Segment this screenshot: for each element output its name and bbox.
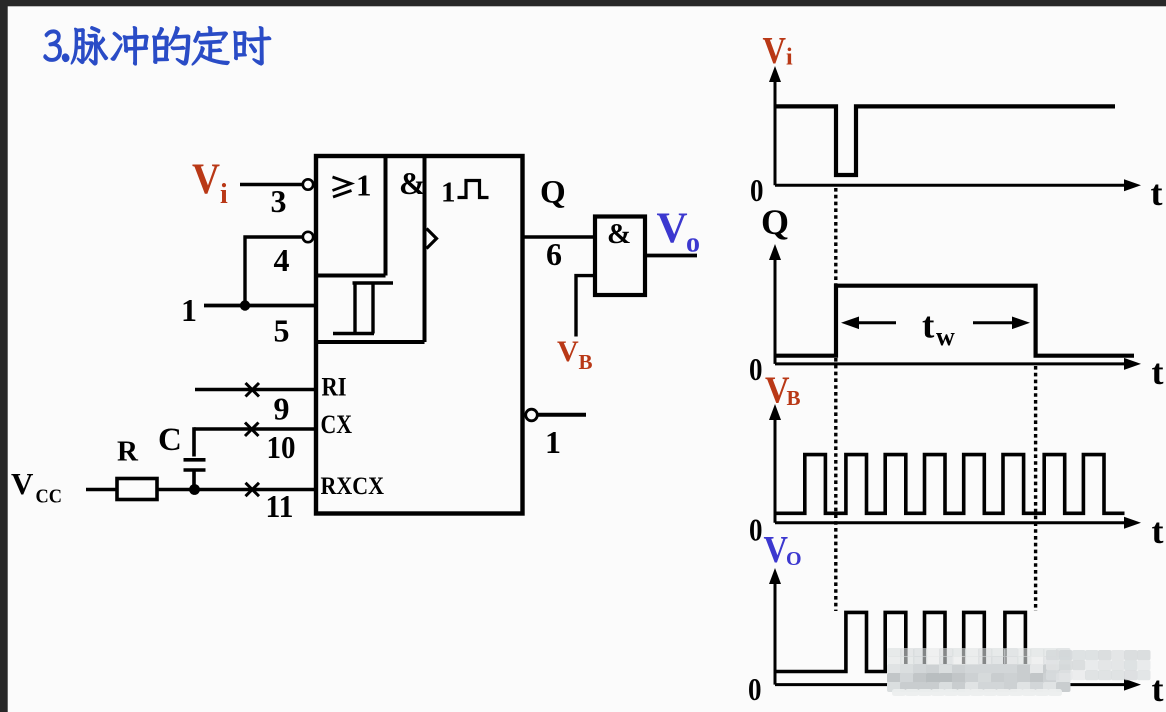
svg-text:O: O xyxy=(786,548,802,570)
svg-text:o: o xyxy=(686,228,700,259)
svg-text:Q: Q xyxy=(540,175,566,211)
resistor R xyxy=(117,479,157,500)
svg-text:CX: CX xyxy=(321,410,353,439)
svg-text:1: 1 xyxy=(181,292,197,328)
graph VB horizontal axis t xyxy=(775,521,1129,524)
svg-text:11: 11 xyxy=(266,488,294,524)
svg-text:6: 6 xyxy=(546,236,562,272)
graph Vo horizontal axis t xyxy=(775,683,1129,686)
svg-text:B: B xyxy=(787,386,801,410)
wire Vo output xyxy=(645,254,697,258)
wire VB to AND gate xyxy=(576,274,595,337)
svg-text:R: R xyxy=(117,436,139,468)
graph Vi horizontal axis t xyxy=(775,184,1129,187)
pin 4 bubble xyxy=(303,232,313,242)
svg-text:t: t xyxy=(1152,511,1164,551)
capacitor C xyxy=(184,427,206,489)
junction dot xyxy=(240,300,250,310)
pin 1 bubble (inverted output) xyxy=(526,409,538,421)
svg-text:9: 9 xyxy=(274,391,290,427)
svg-text:RI: RI xyxy=(322,373,347,402)
OR gate label ≥1 xyxy=(333,177,352,197)
graph Q vertical axis xyxy=(774,254,777,364)
edge-trigger marker xyxy=(427,229,437,249)
watermark mosaic xyxy=(887,648,1151,696)
svg-text:1: 1 xyxy=(441,177,456,209)
X mark pin 10 xyxy=(245,423,259,437)
graph Q horizontal axis t xyxy=(775,362,1129,365)
svg-text:w: w xyxy=(936,322,955,351)
svg-text:0: 0 xyxy=(748,671,762,707)
svg-text:1: 1 xyxy=(545,424,561,460)
OR gate section divider xyxy=(316,156,386,276)
svg-text:CC: CC xyxy=(36,486,63,508)
svg-text:5: 5 xyxy=(274,313,290,349)
svg-text:1: 1 xyxy=(356,168,372,203)
svg-text:B: B xyxy=(579,350,593,374)
wire to pin 4 xyxy=(245,235,302,305)
svg-text:&: & xyxy=(399,165,426,201)
graph VB vertical axis xyxy=(774,414,777,523)
wire VCC to resistor xyxy=(86,488,117,491)
title 3.脉冲的定时 xyxy=(44,27,271,65)
wire node 1 to pin 5 xyxy=(204,304,316,308)
wire CX pin 10 xyxy=(194,427,316,430)
svg-text:Q: Q xyxy=(761,202,789,242)
svg-text:0: 0 xyxy=(749,351,763,387)
wire pin 1 stub xyxy=(538,413,587,417)
svg-text:0: 0 xyxy=(749,512,763,548)
wire Q pin 6 to AND gate xyxy=(524,235,594,238)
AND section divider xyxy=(316,156,425,342)
svg-text:i: i xyxy=(786,45,793,71)
dotted guide line t2 xyxy=(1034,366,1037,611)
monostable IC U1 outline xyxy=(316,156,523,514)
svg-text:t: t xyxy=(1151,173,1163,213)
tw right arrow xyxy=(973,321,1023,324)
junction dot C/R xyxy=(189,484,200,495)
svg-text:V: V xyxy=(764,529,789,571)
waveform VB xyxy=(775,455,1125,514)
svg-text:t: t xyxy=(1152,669,1164,709)
svg-text:&: & xyxy=(607,218,631,250)
svg-text:10: 10 xyxy=(267,429,296,465)
svg-text:3: 3 xyxy=(271,183,287,219)
wire Vi to pin 3 xyxy=(240,183,302,186)
svg-text:V: V xyxy=(763,30,787,72)
svg-text:t: t xyxy=(1152,352,1164,392)
svg-text:i: i xyxy=(220,179,228,210)
svg-text:RXCX: RXCX xyxy=(321,471,385,500)
svg-text:C: C xyxy=(158,422,182,458)
X mark pin 11 xyxy=(246,483,260,496)
waveform Vi xyxy=(775,106,1115,175)
svg-text:V: V xyxy=(192,156,220,203)
waveform Q xyxy=(775,286,1134,356)
wire RXCX pin 11 xyxy=(157,488,316,491)
svg-text:V: V xyxy=(657,205,688,252)
wire RI pin 9 xyxy=(195,388,316,391)
dotted guide line t1 xyxy=(834,188,837,611)
tw left arrow xyxy=(846,321,896,324)
waveform Vo xyxy=(775,612,1037,671)
graph Vo vertical axis xyxy=(774,578,777,685)
svg-text:V: V xyxy=(11,466,34,501)
graph Vi vertical axis xyxy=(774,76,777,185)
AND gate U2 xyxy=(595,217,645,296)
X mark pin 9 xyxy=(246,383,260,397)
svg-text:4: 4 xyxy=(274,242,290,278)
svg-text:t: t xyxy=(922,306,935,347)
pin 3 bubble xyxy=(303,179,313,189)
Schmitt trigger symbol xyxy=(333,283,393,334)
svg-text:V: V xyxy=(557,335,579,368)
